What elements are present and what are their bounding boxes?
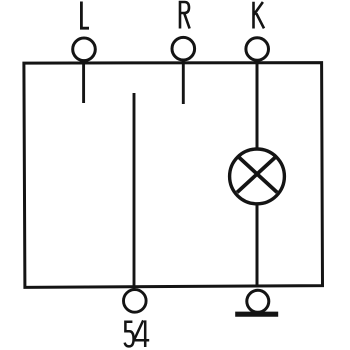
terminal circle L <box>73 38 96 61</box>
wire lamp to bottom edge <box>256 204 259 286</box>
wire stub R <box>182 61 185 104</box>
label L <box>81 2 89 29</box>
label R <box>180 2 190 29</box>
terminal circle K <box>246 38 269 61</box>
ground terminal circle <box>247 290 269 312</box>
terminal circle R <box>172 37 195 60</box>
relay body box <box>24 63 323 288</box>
label 54 <box>125 320 150 347</box>
lamp E1 (circle) <box>230 149 285 204</box>
wire terminal 54 <box>133 93 136 289</box>
wire stub L <box>82 61 85 103</box>
terminal circle 54 <box>124 290 147 313</box>
ground bar <box>235 312 278 317</box>
lamp E1 (cross) <box>237 156 277 193</box>
label K <box>254 2 265 29</box>
wire K to lamp <box>256 61 259 148</box>
